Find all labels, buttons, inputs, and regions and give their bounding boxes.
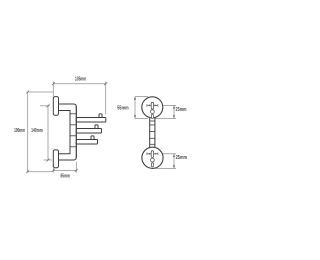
svg-text:135mm: 135mm [75, 77, 86, 83]
svg-text:65mm: 65mm [61, 173, 71, 179]
svg-text:25mm: 25mm [176, 155, 188, 161]
svg-text:190mm: 190mm [14, 128, 25, 134]
svg-text:140mm: 140mm [31, 128, 43, 134]
svg-text:55mm: 55mm [117, 105, 129, 111]
svg-text:25mm: 25mm [176, 107, 187, 113]
